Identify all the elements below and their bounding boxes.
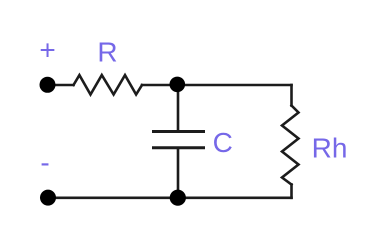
wire: top rail, + terminal to resistor R — [48, 84, 74, 87]
svg-text:-: - — [40, 147, 49, 178]
node B (bottom junction dot) — [170, 190, 186, 206]
wire: capacitor top lead from node A — [177, 85, 180, 130]
svg-text:+: + — [39, 35, 55, 66]
node A (top junction dot) — [170, 77, 186, 93]
wire: top rail, resistor R to node A — [142, 84, 178, 87]
svg-text:Rh: Rh — [312, 133, 348, 164]
label R — [97, 37, 117, 68]
wire: capacitor bottom lead to node B — [177, 149, 180, 198]
label + (positive terminal mark) — [39, 35, 55, 66]
svg-text:R: R — [97, 37, 117, 68]
wire: top rail, node A to top-right corner — [178, 84, 292, 87]
wire: right branch lower lead to bottom-right corner — [290, 185, 293, 198]
resistor Rh (vertical zigzag) — [282, 106, 299, 185]
svg-text:C: C — [213, 127, 233, 158]
label - (negative terminal mark) — [40, 147, 49, 178]
label C — [213, 127, 233, 158]
resistor R (horizontal zigzag) — [74, 75, 143, 94]
terminal + (filled dot) — [40, 77, 56, 93]
wire: right branch upper lead — [290, 85, 293, 106]
wire: bottom rail, node B to - terminal — [48, 197, 178, 200]
capacitor C (two plates) — [152, 132, 205, 148]
label Rh — [312, 133, 348, 164]
terminal - (filled dot) — [40, 190, 56, 206]
wire: bottom rail, bottom-right corner to node B — [178, 197, 292, 200]
